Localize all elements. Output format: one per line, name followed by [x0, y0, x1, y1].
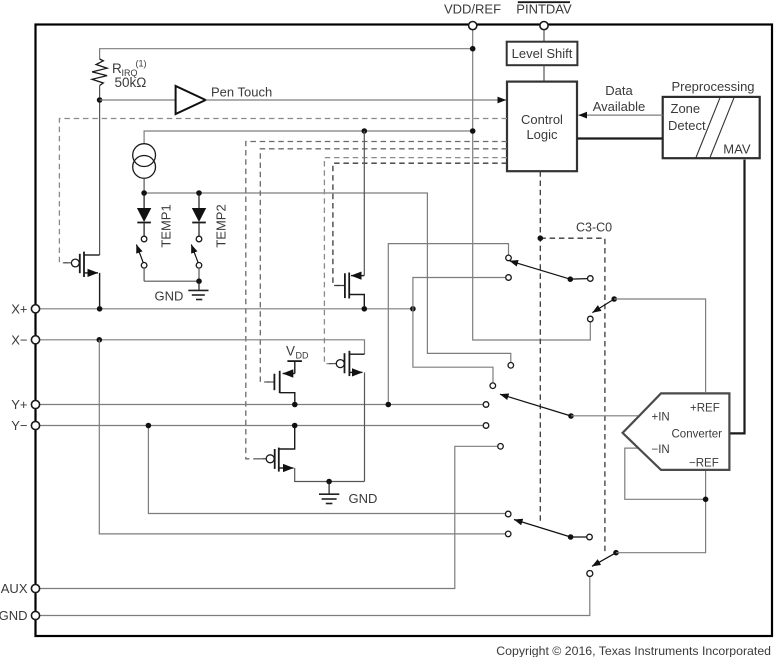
svg-text:AUX: AUX [1, 581, 28, 596]
wire: AUX rail [36, 446, 498, 588]
wire: resistor top to VDD/REF line [100, 49, 473, 59]
svg-text:GND: GND [349, 491, 378, 506]
junction: X+ / switch riser [410, 306, 416, 312]
wire: GND rail [36, 577, 590, 616]
block: Control Logic [507, 82, 577, 172]
wire: X- riser B to S4 bottom throw [99, 340, 505, 534]
wire: pen-touch node vertical (resistor to X+ driver drain) [99, 100, 101, 255]
diode TEMP1 [137, 193, 151, 236]
wire: MAV output bus to converter [729, 160, 744, 434]
VDD supply bar [287, 361, 302, 373]
wire: level shift to control logic [543, 65, 545, 81]
wire: PINTDAV to level shift [543, 30, 545, 42]
wire: Y+ riser to switch S1 top throw [388, 244, 508, 405]
junction: X+ / pull-up source [362, 306, 368, 312]
wire: VDD/REF vertical net down to +REF switch [473, 29, 591, 340]
junction: resistor / pen touch node [97, 97, 103, 103]
svg-text:−REF: −REF [689, 458, 719, 470]
wire: -IN loop [625, 448, 706, 499]
junction: VDD line / X+ pull-up drain [362, 128, 368, 134]
wire: pen touch input [100, 99, 176, 101]
junction: -REF / -IN [703, 497, 709, 503]
dashed control line D5 to X+ pull-up gate [333, 163, 507, 285]
svg-text:GND: GND [155, 289, 184, 304]
wire: temp sensor rail [144, 193, 511, 362]
svg-text:Preprocessing: Preprocessing [671, 79, 754, 94]
wire: X+ riser to +IN switch throw [413, 309, 493, 383]
wire: -REF / -IN net [616, 471, 706, 553]
terminal VDD/REF [444, 2, 501, 30]
switch S2 (+REF select) [588, 296, 618, 322]
wire: X+ rail [36, 308, 413, 310]
svg-text:Logic: Logic [526, 127, 558, 142]
junction: TEMP2 anode [196, 190, 202, 196]
transistor: Y+ pull-up nMOS (VDD) [267, 371, 295, 402]
junction: X+ / driver source [97, 306, 103, 312]
junction: X- / B riser [97, 337, 103, 343]
svg-text:TEMP1: TEMP1 [159, 204, 174, 247]
wire: Y+ rail [36, 404, 484, 406]
wire: control logic to preprocessing bus [577, 137, 662, 139]
terminal GND [0, 608, 40, 623]
dashed C3-C0 control line [539, 171, 541, 523]
resistor RIRQ 50k [92, 59, 107, 86]
ground symbol (bottom) [319, 482, 339, 504]
svg-text:Detect: Detect [668, 118, 706, 133]
ground symbol (temp) [188, 281, 208, 299]
svg-text:Y−: Y− [11, 418, 27, 433]
transistor: Y- pull-down nMOS (gate bubble) [259, 428, 365, 482]
switch S1 (series row select) [506, 255, 593, 282]
dashed control line D4 to X- pMOS gate [324, 158, 507, 364]
wire: +REF to converter [614, 299, 705, 392]
junction: VDD line at control logic feed [470, 128, 476, 134]
dashed C3-C0 branch [540, 238, 605, 554]
switch: TEMP2 select [191, 236, 202, 281]
svg-text:DD: DD [296, 351, 309, 361]
buffer: Pen Touch comparator [176, 86, 206, 114]
svg-text:Y+: Y+ [11, 397, 27, 412]
svg-text:R: R [112, 61, 122, 76]
svg-text:Level Shift: Level Shift [512, 46, 573, 61]
terminal AUX [1, 581, 40, 596]
wire: temp switches common to ground [144, 280, 199, 282]
wire: Y- rail [36, 425, 484, 427]
svg-text:+IN: +IN [652, 412, 670, 424]
label VDD [286, 344, 309, 361]
block: Converter (pentagon) [623, 393, 730, 470]
transistor: X- pMOS (gate bubble) [329, 351, 365, 482]
svg-text:Control: Control [521, 112, 563, 127]
junction: TEMP1 anode [141, 190, 147, 196]
svg-text:V: V [286, 344, 295, 359]
block: Preprocessing (Zone Detect / MAV) [663, 79, 760, 158]
svg-text:Available: Available [593, 99, 646, 114]
svg-text:+REF: +REF [690, 403, 720, 415]
terminal X- [11, 332, 39, 347]
switch S3 (+IN select) [483, 363, 574, 450]
dashed control line D1 to X+ driver gate [59, 119, 507, 263]
svg-text:Converter: Converter [672, 429, 723, 441]
dashed control line D2 to Y- pull-down gate [246, 142, 507, 459]
junction: Y- / pull-down drain [292, 423, 298, 429]
junction: VDD line / resistor top wire [470, 46, 476, 52]
switch S5 (-REF to GND) [587, 550, 619, 577]
svg-text:(1): (1) [136, 59, 147, 69]
svg-text:50kΩ: 50kΩ [115, 75, 147, 90]
svg-text:MAV: MAV [723, 142, 751, 157]
svg-text:TEMP2: TEMP2 [214, 204, 229, 247]
terminal PINTDAV (overline) [516, 2, 572, 30]
svg-text:Pen Touch: Pen Touch [211, 85, 272, 100]
wire: Y- riser A to S4 top throw [148, 426, 505, 514]
wire: current source output to temp diodes [143, 178, 145, 193]
svg-text:X−: X− [11, 332, 27, 347]
diode TEMP2 [192, 193, 206, 236]
terminal Y- [11, 418, 39, 433]
wire: data available (preprocessing to control logic) [579, 83, 663, 115]
terminal X+ [11, 301, 39, 316]
label RIRQ(1) 50kOhm [112, 59, 147, 91]
block: Level Shift [507, 42, 578, 65]
transistor: X+ driver pMOS (gate bubble) [64, 252, 100, 306]
wire: X+ riser to switch S1 bottom throw [413, 278, 505, 309]
svg-text:Copyright © 2016, Texas Instru: Copyright © 2016, Texas Instruments Inco… [496, 644, 771, 657]
wire: VDD supply to current source and X+ pull-up [144, 131, 473, 144]
junction: Y+ / riser [386, 402, 392, 408]
junction: C3-C0 branch [538, 235, 544, 241]
dashed control line D3 to VDD driver gate [260, 149, 507, 382]
svg-text:−IN: −IN [652, 444, 670, 456]
svg-text:Zone: Zone [671, 101, 701, 116]
junction: ground rail [326, 479, 332, 485]
wire: X- rail [36, 340, 365, 354]
current source (temp diodes) [133, 144, 156, 179]
svg-text:X+: X+ [11, 301, 27, 316]
svg-text:VDD/REF: VDD/REF [444, 2, 501, 17]
junction: Y- / A riser [146, 423, 152, 429]
svg-text:Data: Data [605, 83, 633, 98]
switch S4 (minus input row select) [505, 511, 592, 540]
wire: +IN to converter [571, 415, 640, 417]
terminal Y+ [11, 397, 39, 412]
svg-text:PINTDAV: PINTDAV [516, 2, 572, 17]
switch: TEMP1 select [136, 236, 147, 281]
transistor: X+ pull-up nMOS [337, 131, 365, 306]
junction: Y+ / VDD driver source [292, 402, 298, 408]
svg-text:C3-C0: C3-C0 [576, 221, 612, 235]
svg-text:GND: GND [0, 608, 28, 623]
wire: pen touch output to control logic [206, 99, 506, 101]
